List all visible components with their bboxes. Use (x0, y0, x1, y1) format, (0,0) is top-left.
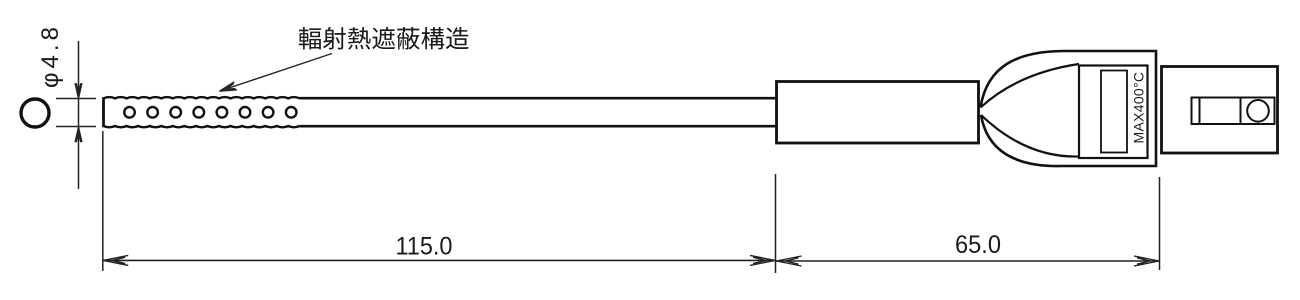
115.0 dimension extension line left (102, 131, 104, 271)
65.0 left arrow (777, 256, 802, 266)
label white strip (1101, 71, 1127, 153)
plug pin circle (1247, 100, 1269, 122)
dia 4.8 top arrow (pointing down) (75, 83, 82, 98)
tube bottom edge (wavy radiation shield section) (104, 126, 300, 127)
plug body rectangle (1162, 67, 1278, 154)
shield vent hole 7 (263, 107, 274, 118)
dia 4.8 dimension line vertical (78, 41, 80, 189)
handle body rectangle (777, 82, 979, 144)
svg-text:65.0: 65.0 (955, 231, 1001, 259)
leader label text: radiation heat shield structure (299, 27, 469, 50)
shield vent hole 4 (194, 107, 205, 118)
115.0 left arrow (103, 255, 128, 265)
115.0 / 65.0 shared extension line (middle) (775, 174, 777, 273)
tube top edge (straight section) (300, 97, 777, 100)
connector boot inner top curve (981, 64, 1080, 108)
plug slot right divider (1240, 98, 1242, 125)
svg-text:115.0: 115.0 (396, 233, 453, 261)
shield vent hole 5 (217, 107, 228, 118)
shield vent hole 1 (124, 107, 135, 118)
dia 4.8 dimension extension line bottom (56, 126, 96, 128)
svg-text:φ4.8: φ4.8 (37, 23, 64, 88)
svg-text:MAX400°C: MAX400°C (1131, 72, 1147, 144)
115.0 dimension line (103, 259, 775, 261)
shield vent hole 2 (147, 107, 158, 118)
dia 4.8 bottom arrow (pointing up) (75, 127, 82, 142)
leader arrowhead (220, 82, 238, 91)
shield vent hole 8 (286, 107, 297, 118)
tube top edge (wavy radiation shield section) (104, 97, 300, 98)
115.0 right arrow (750, 255, 775, 265)
65.0 dimension line (776, 260, 1160, 262)
65.0 right arrow (1134, 256, 1159, 266)
shield vent hole 3 (170, 107, 181, 118)
leader line (222, 54, 333, 91)
connector boot outer outline (981, 51, 1157, 166)
connector boot inner bottom curve (981, 115, 1079, 157)
connector label box (1079, 66, 1148, 159)
probe tip cross-section circle (end view) (21, 99, 49, 127)
dia 4.8 dimension extension line top (56, 98, 96, 100)
65.0 dimension extension line right (1159, 177, 1161, 270)
plug slot rectangle (1192, 98, 1275, 125)
plug slot left divider (1199, 98, 1201, 125)
probe sheath tube body (104, 98, 777, 126)
shield vent hole 6 (240, 107, 251, 118)
tube left end edge (102, 97, 105, 127)
tube bottom edge (straight section) (300, 125, 777, 128)
